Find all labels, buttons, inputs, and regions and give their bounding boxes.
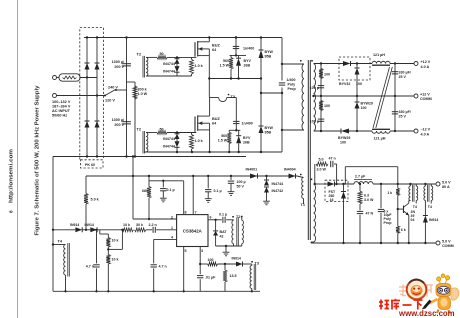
svg-text:3.0 W: 3.0 W (317, 168, 327, 172)
transformer T4 output b (424, 184, 426, 186)
svg-text:1 k: 1 k (387, 191, 392, 195)
wire sense node (218, 263, 237, 265)
resistor 560 1.5W (A) (230, 55, 232, 57)
feedback tap (107, 248, 109, 250)
svg-text:26B: 26B (243, 140, 250, 144)
svg-text:6.3: 6.3 (364, 193, 369, 197)
wire fuse to bridge (57, 77, 60, 79)
svg-text:5.0: 5.0 (319, 158, 324, 162)
zener 1N4742 (aux) (264, 187, 269, 193)
resistor 30k horizontal (135, 228, 147, 232)
svg-text:IN914: IN914 (232, 257, 241, 261)
capacitor 100p (sec B) (318, 118, 324, 120)
svg-text:100 p: 100 p (310, 120, 320, 124)
svg-text:1300 µ/: 1300 µ/ (112, 118, 124, 122)
control ground rail (53, 290, 260, 292)
svg-text:www.dzsc.com: www.dzsc.com (398, 309, 455, 318)
12V bottom rail (314, 130, 342, 132)
svg-text:200 V: 200 V (114, 123, 124, 127)
transformer T2 gate-drive A + resistor 50 + zeners 1N4744 + resistor 1.0k (142, 56, 144, 78)
inductor 121uH bottom (372, 131, 390, 133)
svg-text:BYV32: BYV32 (339, 82, 350, 86)
svg-text:4.0 A: 4.0 A (421, 132, 430, 136)
wire pin8 riser (183, 181, 185, 215)
resistor 5.0k (85, 176, 87, 194)
ground under 100u (230, 184, 232, 190)
resistor 6.3 3.0W (359, 184, 361, 191)
svg-text:16: 16 (330, 198, 334, 202)
svg-text:BYW29: BYW29 (338, 136, 350, 140)
op-amp U1 CS3842A (177, 215, 208, 247)
page border line (17, 0, 19, 318)
wire to 2.2n (146, 229, 152, 231)
wire 680/cap top row (149, 180, 184, 182)
svg-text:26B: 26B (244, 64, 251, 68)
dashed box PK 60 (81, 160, 104, 168)
resistor 560 1.5W (B) (228, 130, 230, 132)
svg-text:Figure 7. Schematic of 500 W,: Figure 7. Schematic of 500 W, 200 kHz Po… (35, 85, 41, 235)
capacitor 0.1u (drive) (222, 217, 224, 223)
resistor 100 (sec A) (319, 69, 323, 79)
svg-text:187–264 V: 187–264 V (52, 105, 71, 109)
svg-text:1n/400: 1n/400 (243, 46, 254, 50)
wire base node (398, 208, 404, 210)
svg-text:560: 560 (223, 59, 229, 63)
wire pin4 row (154, 238, 177, 240)
svg-text:100 µ: 100 µ (237, 180, 246, 184)
bridge column 1 wire (86, 38, 88, 157)
capacitor 4.7n (t4) (96, 230, 98, 264)
svg-text:0.1 µ: 0.1 µ (219, 212, 227, 216)
svg-text:100 p: 100 p (310, 86, 320, 90)
riser bus to rail to pin2 (132, 157, 134, 220)
svg-text:6 k: 6 k (401, 228, 406, 232)
diode 1N4004 (289, 174, 296, 179)
svg-text:1.0 k: 1.0 k (195, 139, 204, 143)
bottom row A (209, 78, 261, 80)
capacitor 4.7n (pin4) (153, 239, 155, 263)
svg-text:T3: T3 (231, 95, 235, 99)
watermark ghost char 2 (411, 284, 420, 297)
svg-text:BYV: BYV (244, 59, 252, 63)
svg-text:5.0 V: 5.0 V (442, 181, 451, 185)
diode 1N914 (b) (90, 227, 97, 232)
mosfet Q1 BUZ64 (194, 42, 196, 56)
capacitor 100p (sec A) (318, 85, 324, 87)
capacitor 1n/400 (A) (235, 38, 237, 56)
svg-text:BYW: BYW (265, 126, 274, 130)
svg-text:BUZ: BUZ (212, 44, 220, 48)
svg-text:5.0 k: 5.0 k (91, 198, 100, 202)
watermark stamp seal (407, 280, 427, 300)
AC input terminal bottom (53, 94, 57, 98)
watermark mascot body (438, 297, 451, 310)
svg-text:100: 100 (324, 104, 330, 108)
terminal +12V 4.0A (414, 62, 418, 66)
wire T3 primary row (210, 97, 219, 99)
resistor 100 (sec B) (319, 101, 323, 111)
inductor 2.7uF magamp (354, 182, 373, 184)
T4 feedback left vertical (52, 157, 54, 292)
svg-text:50: 50 (160, 127, 164, 131)
terminal 5.0V COMM (436, 241, 440, 245)
drive ground row (216, 245, 242, 247)
svg-text:PK 60: PK 60 (85, 163, 95, 167)
svg-text:IN4004: IN4004 (284, 167, 296, 171)
capacitor 1/400 PolyProp (279, 82, 285, 84)
svg-text:95B: 95B (265, 55, 272, 59)
svg-text:200 V: 200 V (114, 65, 124, 69)
coupled core diagonal (373, 67, 390, 128)
svg-text:121 µH: 121 µH (373, 53, 385, 57)
bus B- (53, 156, 246, 158)
wire pin6 row (208, 219, 222, 221)
svg-text:100: 100 (356, 82, 362, 86)
svg-text:25 V: 25 V (399, 115, 407, 119)
capacitor 6x10uF PolyProp (380, 184, 382, 208)
svg-text:100: 100 (208, 258, 214, 262)
transformer T4 output a (409, 184, 411, 186)
watermark mascot head (436, 284, 451, 297)
wire T1 5V bottom (311, 241, 314, 243)
svg-text:47 N: 47 N (366, 211, 374, 215)
svg-text:T3: T3 (255, 262, 259, 266)
bus B+ top rail (84, 37, 282, 39)
transformer T1 12V secondary (314, 64, 316, 132)
svg-text:T4: T4 (428, 205, 432, 209)
ground under T2 drive (225, 246, 227, 250)
svg-text:4.7 n: 4.7 n (159, 265, 167, 269)
svg-text:IN4742: IN4742 (272, 189, 284, 193)
svg-text:IN4744: IN4744 (163, 69, 176, 73)
capacitor 0.1u (vcc) (207, 176, 209, 188)
transformer T2 gate-drive B + resistor 50 + zeners 1N4744 + resistor 1.0k (142, 131, 144, 154)
svg-text:240 V: 240 V (108, 86, 118, 90)
svg-text:30 k: 30 k (136, 223, 143, 227)
watermark text wei ku yi xia (379, 299, 423, 310)
svg-text:4.7 n: 4.7 n (86, 265, 94, 269)
diode BYW95B (B) (260, 79, 262, 127)
svg-text:IN4744: IN4744 (272, 182, 284, 186)
svg-text:5: 5 (185, 249, 187, 253)
transistor Q3 2N3904 (403, 206, 405, 214)
svg-text:T4: T4 (413, 205, 417, 209)
resistor 13.5 (224, 264, 226, 270)
diode 1N914 (a) (75, 227, 82, 232)
svg-text:47 n: 47 n (329, 157, 336, 161)
wire AC line 2 (57, 95, 106, 97)
svg-text:COMM: COMM (442, 244, 454, 248)
terminal 5.0V 80A (436, 182, 440, 186)
magamp feedback takeoff (344, 167, 346, 184)
wire pin3 down (199, 247, 201, 265)
wire to +12V terminal (390, 63, 414, 65)
12V top rail (314, 63, 344, 65)
diode BYW29/100 middle (356, 96, 358, 102)
svg-text:IN4744: IN4744 (163, 144, 176, 148)
wire pin1 row segment (53, 229, 75, 231)
svg-text:3.0 W: 3.0 W (364, 198, 374, 202)
wire Q2 drain up (209, 98, 211, 117)
diode 1N4001 (250, 174, 258, 179)
diode BYV32 vertical (356, 64, 358, 69)
wire B+ down right side (281, 38, 283, 81)
clamp row A (230, 54, 247, 56)
svg-text:7: 7 (195, 210, 197, 214)
wire diode out row (97, 229, 122, 231)
svg-text:AC INPUT: AC INPUT (52, 109, 71, 113)
capacitor 330uF/25V bottom (392, 111, 398, 113)
transformer T1 primary (282, 63, 304, 65)
fuse F1 (59, 74, 80, 81)
svg-text:121 µH: 121 µH (374, 137, 386, 141)
terminal +12V COMM (414, 94, 418, 98)
bridge diode D4 (95, 121, 100, 128)
svg-text:+12 V: +12 V (421, 60, 431, 64)
svg-text:50/60 Hz: 50/60 Hz (52, 113, 67, 117)
current transformer T3 secondary (250, 266, 252, 289)
terminal -12V 4.0A (414, 129, 418, 133)
svg-text:680: 680 (142, 189, 148, 193)
snubber 5.0 3.0W + 47n (314, 164, 316, 184)
wire to +12V COMM terminal (395, 95, 414, 97)
transformer T2 drive primary (232, 220, 234, 243)
watermark mascot right hand (451, 288, 459, 300)
svg-text:IN4744: IN4744 (163, 62, 176, 66)
dashed box BYV32 (339, 57, 370, 80)
svg-text:Prop: Prop (384, 221, 392, 225)
svg-text:10 k: 10 k (112, 258, 119, 262)
svg-text:http://onsemi.com: http://onsemi.com (9, 148, 15, 203)
svg-text:BUZ: BUZ (212, 117, 220, 121)
watermark mascot antennae (437, 274, 450, 284)
svg-text:95B: 95B (265, 131, 272, 135)
transformer T4 (feedback) (64, 245, 66, 276)
bridge diode D3 (95, 63, 100, 70)
svg-text:1300 µ/: 1300 µ/ (112, 60, 124, 64)
svg-text:2.2 n: 2.2 n (149, 223, 157, 227)
wire Q2 source down (209, 130, 211, 152)
resistor 1k upper (397, 167, 399, 189)
svg-text:IN914: IN914 (70, 223, 79, 227)
diode BYW29/100 bottom (341, 129, 349, 134)
diode 1N914 (sense) (236, 262, 243, 267)
svg-text:1/400: 1/400 (287, 78, 296, 82)
svg-text:100: 100 (340, 141, 346, 145)
svg-text:330 µF/: 330 µF/ (399, 71, 411, 75)
watermark ghost char 3 (425, 285, 433, 297)
svg-text:200 k: 200 k (138, 88, 148, 92)
svg-text:BYW: BYW (265, 50, 274, 54)
svg-text:1.0 k: 1.0 k (195, 64, 204, 68)
svg-text:8: 8 (185, 210, 187, 214)
svg-text:100: 100 (324, 73, 330, 77)
svg-text:IN914: IN914 (429, 218, 438, 222)
wire pin5 down (183, 247, 185, 292)
center tap rail (314, 95, 396, 97)
svg-text:0.1 µ: 0.1 µ (167, 188, 175, 192)
svg-text:5.0 V: 5.0 V (442, 240, 451, 244)
svg-text:330 µF/: 330 µF/ (399, 110, 411, 114)
wire to T3 (243, 263, 252, 265)
svg-text:1n/400: 1n/400 (242, 121, 253, 125)
svg-text:10 k: 10 k (123, 223, 130, 227)
current transformer T3 primary hump (219, 98, 227, 102)
mosfet Q2 BUZ64 (194, 117, 196, 131)
resistor 10k upper (107, 234, 109, 238)
5V COMM rail (311, 242, 436, 244)
resistor 100 (sense) (208, 262, 218, 266)
dashed box EMI/bridge (80, 28, 104, 160)
watermark mascot brush arm (429, 299, 438, 304)
svg-text:BYV: BYV (243, 136, 251, 140)
capacitor 1n/400 (B) (235, 98, 237, 131)
wire cap to T2 (226, 219, 233, 221)
ground under zeners (266, 199, 268, 201)
transformer T1 core (307, 60, 309, 240)
wire Q1 source down (208, 56, 210, 98)
resistor 680 (148, 176, 150, 181)
svg-text:–12 V: –12 V (421, 128, 431, 132)
svg-text:IN4001: IN4001 (246, 167, 258, 171)
resistor 10k horizontal (122, 228, 134, 232)
capacitor 100u/50V (230, 176, 232, 180)
diode FST freewheel (343, 184, 345, 192)
bridge column 2 wire (96, 38, 98, 157)
svg-text:4.0 A: 4.0 A (421, 65, 430, 69)
svg-text:120 V: 120 V (105, 99, 115, 103)
resistor 10k lower (106, 255, 110, 265)
output cap column (394, 64, 396, 132)
svg-text:0.1 µ: 0.1 µ (214, 189, 222, 193)
wire between diodes (82, 229, 90, 231)
capacitor 47N (359, 204, 361, 210)
wire rail to T1 aux (297, 176, 304, 178)
ground under 0.1u ref (162, 191, 164, 196)
bottom row B (144, 151, 282, 153)
snubber column 12V (320, 64, 322, 132)
svg-text:1: 1 (171, 226, 173, 230)
svg-text:BAT: BAT (220, 230, 228, 234)
svg-text:6: 6 (210, 216, 212, 220)
svg-text:2.7 µF: 2.7 µF (355, 174, 366, 178)
capacitor 0.1u (ref) (162, 181, 164, 188)
AC input terminal top (53, 76, 57, 80)
zener 1N4744 (aux) (266, 176, 268, 180)
svg-text:80 A: 80 A (442, 185, 450, 189)
watermark ghost char 1 (399, 285, 407, 297)
diode 1N914 (output) (423, 216, 428, 223)
svg-text:13.5: 13.5 (230, 274, 237, 278)
svg-text:1.0 W: 1.0 W (138, 92, 148, 96)
diode BYV26B (B) (238, 130, 240, 135)
svg-text:Prop: Prop (288, 87, 297, 91)
diode BYV32 horizontal (343, 61, 351, 66)
diode FST 260 16 horizontal (328, 182, 335, 187)
capacitor .01uF (199, 264, 201, 274)
wire pin7 riser (192, 176, 194, 215)
svg-text:BYW29: BYW29 (361, 102, 373, 106)
svg-text:560: 560 (221, 134, 227, 138)
svg-text:25 V: 25 V (399, 75, 407, 79)
svg-text:50 V: 50 V (237, 185, 245, 189)
svg-text:COMM: COMM (420, 97, 432, 101)
Vcc rail (86, 175, 297, 177)
capacitor C1 1300u/200V (126, 38, 128, 157)
svg-text:+12 V: +12 V (420, 93, 430, 97)
svg-text:IN914: IN914 (85, 223, 94, 227)
svg-text:10 k: 10 k (112, 239, 119, 243)
ground under 0.1u vcc (207, 192, 209, 197)
bridge diode D2 (85, 121, 90, 128)
diode BAT42 (215, 220, 217, 231)
wire 2.2n to pin1 (156, 229, 176, 231)
svg-text:3: 3 (201, 249, 203, 253)
svg-text:50: 50 (160, 52, 164, 56)
clamp row B (229, 129, 240, 131)
dashed box FST (325, 180, 348, 201)
diode BYV26B (A) (238, 55, 240, 58)
bridge diode D1 (85, 63, 90, 70)
svg-text:04: 04 (411, 218, 415, 222)
svg-text:T2: T2 (236, 215, 240, 219)
svg-text:Poly: Poly (288, 83, 296, 87)
diode BYW95B (A) (260, 38, 262, 51)
5V+ rail (314, 183, 328, 185)
capacitor 330uF/25V top (392, 71, 398, 73)
transformer T1 5V secondary (314, 184, 316, 242)
capacitor 2.2n (152, 227, 154, 233)
wire pin2 row (133, 218, 177, 220)
transformer T1 aux winding (302, 178, 304, 199)
svg-text:IN4744: IN4744 (163, 137, 176, 141)
resistor 6k lower (397, 209, 399, 226)
wire to -12V terminal (390, 130, 414, 132)
svg-text:1.5 W: 1.5 W (218, 138, 228, 142)
resistor 200k 1.0W (134, 82, 136, 157)
switch 120/240V select (105, 90, 116, 96)
svg-text:42: 42 (220, 235, 224, 239)
wire pin3 row (200, 263, 207, 265)
capacitor C2 1300u/200V (122, 121, 131, 123)
svg-text:100–132 V: 100–132 V (52, 100, 71, 104)
svg-text:CS3842A: CS3842A (183, 228, 203, 233)
svg-text:1.5 W: 1.5 W (220, 64, 230, 68)
inductor 121uH top (372, 61, 390, 63)
svg-text:100: 100 (361, 106, 367, 110)
svg-text:.01 µF: .01 µF (205, 276, 216, 280)
svg-text:8: 8 (9, 210, 14, 213)
